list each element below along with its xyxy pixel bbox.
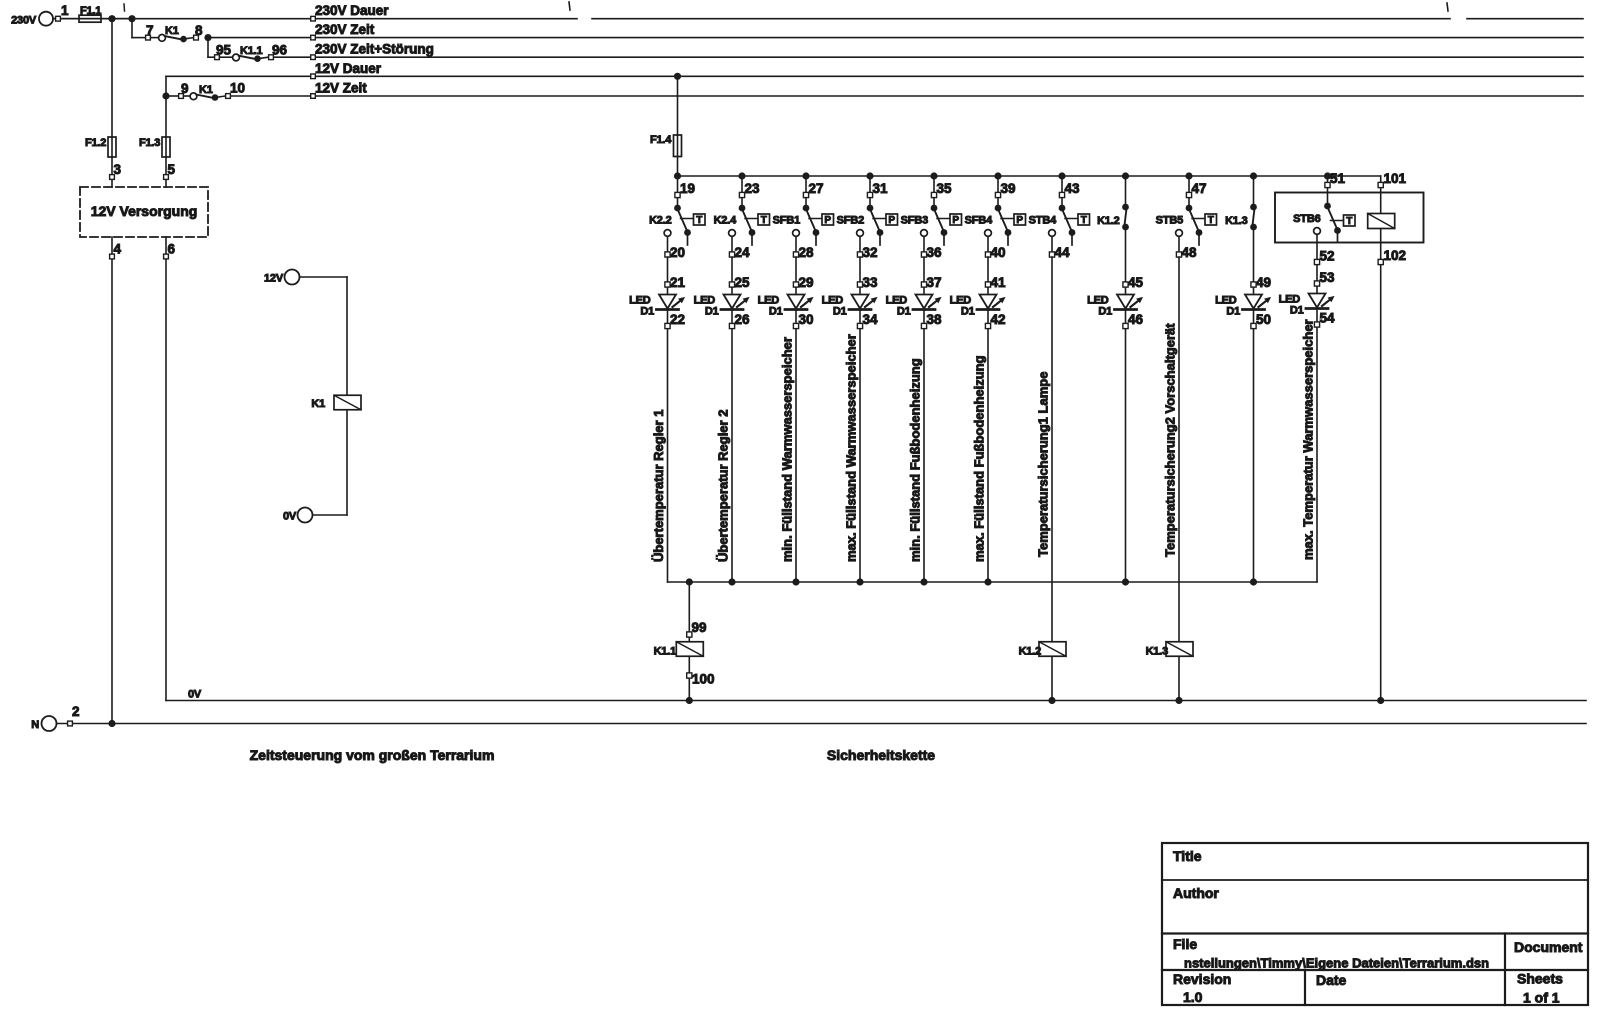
svg-text:Temperatursicherung1 Lampe: Temperatursicherung1 Lampe [1036,372,1051,557]
wire STB4 column to K1.2 coil [1051,257,1053,641]
svg-text:K2.2: K2.2 [649,215,672,227]
node junction bottom bus SFB1 [792,578,799,585]
svg-text:54: 54 [1320,311,1336,326]
svg-text:230V Dauer: 230V Dauer [315,3,389,18]
node 99 [687,620,707,637]
wire branch SFB3 column [923,257,925,582]
wire 12V to K1 coil [300,276,348,278]
relay contact K1.3 branch [1225,172,1257,230]
svg-text:T: T [1081,215,1087,226]
wire STB6 column [1316,234,1318,582]
svg-text:36: 36 [927,245,943,260]
terminal N [31,716,56,731]
fuse F1.2 [85,137,116,157]
svg-text:5: 5 [168,162,176,177]
svg-text:41: 41 [991,275,1007,290]
title block [1162,843,1588,1006]
wire N bus [57,723,1587,725]
svg-text:50: 50 [1256,312,1271,327]
svg-text:20: 20 [670,245,685,260]
svg-text:T: T [1208,215,1214,226]
svg-text:max. Temperatur Warmwasserspei: max. Temperatur Warmwasserspeicher [1301,319,1316,560]
switch K2.4 nodes 23-24 [714,172,770,260]
node junction zeit feed [128,15,135,22]
svg-text:nstellungen\Timmy\Eigene Datei: nstellungen\Timmy\Eigene Dateien\Terrari… [1184,956,1489,971]
rail terminal on 230V Zeit [311,35,316,40]
svg-text:230V: 230V [11,15,37,27]
wire 12V dauer corner [165,76,167,96]
svg-text:22: 22 [670,312,685,327]
svg-text:42: 42 [991,312,1006,327]
node junction supply on N bus [108,720,115,727]
svg-text:46: 46 [1128,312,1144,327]
wire STB5 column to K1.3 coil [1178,257,1180,641]
node junction stoerung feed [204,34,211,41]
svg-text:K1: K1 [199,84,213,96]
svg-text:SFB3: SFB3 [901,215,928,227]
svg-text:43: 43 [1065,181,1081,196]
svg-text:Date: Date [1316,972,1347,988]
wire K1.1 coil to 0V bus [688,656,690,700]
LED D1 nodes 29-30 of SFB1 [758,275,814,329]
wire K1.2 branch column [1125,227,1127,582]
svg-text:min. Füllstand Fußbodenheizung: min. Füllstand Fußbodenheizung [908,358,923,562]
LED D1 nodes 25-26 of K2.4 [694,275,750,329]
relay coil K1 [311,395,361,410]
wire branch K2.2 column [667,257,669,582]
svg-text:95: 95 [216,43,232,58]
node junction bottom bus SFB4 [984,578,991,585]
svg-text:K1.1: K1.1 [654,646,677,658]
relay contact K1.2 branch [1097,172,1129,230]
terminal 0V [283,508,313,523]
svg-text:39: 39 [1001,181,1016,196]
wire K1.1 column [688,582,690,642]
svg-text:4: 4 [114,242,122,257]
svg-text:K1.2: K1.2 [1019,646,1042,658]
relay coil K1.1 [654,642,704,658]
node junction bottom bus K1.2 branch [1122,578,1129,585]
svg-text:Sheets: Sheets [1517,971,1563,987]
switch STB6 node 51 [1293,171,1355,241]
svg-text:0V: 0V [283,511,297,523]
svg-text:230V Zeit+Störung: 230V Zeit+Störung [315,42,434,57]
svg-text:Sicherheitskette: Sicherheitskette [827,747,935,763]
svg-text:34: 34 [863,312,879,327]
wire node 4 down to N bus [111,237,113,724]
relay coil output [1368,214,1395,229]
wire K1.3 branch column [1253,227,1255,582]
svg-text:P: P [1016,215,1023,226]
svg-text:Zeitsteuerung vom großen Terra: Zeitsteuerung vom großen Terrarium [250,747,495,763]
node 101 [1378,171,1406,188]
rail terminal on 12V Zeit [311,94,316,99]
node junction K1.2 on 0V bus [1048,697,1055,704]
svg-text:12V Zeit: 12V Zeit [315,80,367,95]
svg-text:1 of 1: 1 of 1 [1523,990,1560,1006]
svg-text:27: 27 [809,181,824,196]
svg-text:35: 35 [937,181,953,196]
wire 230V Dauer rail [53,18,1583,20]
node 53 [1314,270,1335,286]
svg-text:K1: K1 [311,398,325,410]
relay coil K1.3 [1146,642,1193,658]
LED D1 nodes 45-46 of K1.2 branch [1087,275,1143,329]
svg-text:44: 44 [1055,245,1071,260]
switch SFB4 nodes 39-40 [965,172,1026,260]
LED D1 nodes 21-22 of K2.2 [629,275,685,329]
svg-text:T: T [1346,216,1352,227]
svg-text:12V Dauer: 12V Dauer [315,61,382,76]
wire K1.2 coil to 0V bus [1051,656,1053,700]
svg-text:99: 99 [692,620,707,635]
svg-text:F1.3: F1.3 [139,137,160,149]
LED D1 nodes 37-38 of SFB3 [886,275,942,329]
switch SFB3 nodes 35-36 [901,172,962,260]
svg-text:230V Zeit: 230V Zeit [315,22,375,37]
svg-text:D1: D1 [961,306,975,318]
svg-text:100: 100 [692,672,715,687]
svg-text:SFB2: SFB2 [837,215,864,227]
svg-text:21: 21 [670,275,686,290]
node 102 [1378,248,1406,265]
svg-text:101: 101 [1384,171,1407,186]
node junction K1.1 on 0V bus [686,697,693,704]
svg-text:26: 26 [735,312,751,327]
svg-text:102: 102 [1384,248,1407,263]
svg-text:48: 48 [1182,245,1198,260]
svg-text:STB4: STB4 [1029,215,1057,227]
svg-text:D1: D1 [1098,306,1112,318]
fuse F1.3 [139,137,170,157]
svg-text:30: 30 [799,312,814,327]
node junction 12V zeit feed [162,92,169,99]
svg-text:25: 25 [735,275,751,290]
svg-text:53: 53 [1320,270,1336,285]
svg-text:40: 40 [991,245,1006,260]
svg-text:max. Füllstand Fußbodenheizung: max. Füllstand Fußbodenheizung [972,355,987,562]
wire zeit feed down [131,19,133,38]
svg-text:8: 8 [195,23,203,38]
svg-text:31: 31 [873,181,889,196]
rail terminal on 12V Dauer [311,74,316,79]
LED D1 nodes 41-42 of SFB4 [950,275,1006,329]
svg-text:Document: Document [1514,939,1583,955]
wire F1.4 to branch bus [677,157,679,177]
svg-text:K1.3: K1.3 [1225,215,1248,227]
scan tick mark left [569,2,570,10]
svg-text:7: 7 [146,23,154,38]
node junction bottom bus K2.4 [728,578,735,585]
wire 230V Zeit+Stoerung rail [271,56,1583,58]
svg-text:24: 24 [735,245,751,260]
svg-text:0V: 0V [188,689,202,701]
svg-text:28: 28 [799,245,815,260]
terminal 230V [11,12,53,27]
svg-text:47: 47 [1192,181,1207,196]
rail terminal on 230V Dauer [311,16,316,21]
LED D1 node 54 of STB6 branch [1279,294,1335,328]
wire 0V bus [166,700,1586,702]
svg-text:1.0: 1.0 [1183,989,1203,1005]
wire 230V Zeit rail [208,37,1583,39]
svg-text:Übertemperatur Regler 1: Übertemperatur Regler 1 [651,410,666,562]
svg-text:K2.4: K2.4 [714,215,738,227]
svg-text:37: 37 [927,275,942,290]
wire 12V Dauer rail [166,75,1583,77]
rail terminal on 230V Zeit+Stoerung [311,55,316,60]
wire 12V zeit to fuse F1.3 [165,96,167,137]
svg-text:K1.2: K1.2 [1097,215,1120,227]
svg-text:23: 23 [745,181,761,196]
switch SFB1 nodes 27-28 [773,172,834,260]
svg-text:D1: D1 [1226,306,1240,318]
node junction bottom bus SFB2 [856,578,863,585]
svg-text:33: 33 [863,275,879,290]
node 1 [53,3,79,21]
node 5 [164,162,176,179]
svg-text:min. Füllstand Warmwasserspeic: min. Füllstand Warmwasserspeicher [780,337,795,562]
node junction bottom bus K1.3 branch [1250,578,1257,585]
LED D1 nodes 33-34 of SFB2 [822,275,878,329]
svg-text:32: 32 [863,245,878,260]
svg-text:P: P [952,215,959,226]
node junction K1.3 on 0V bus [1175,697,1182,704]
wire branch SFB2 column [859,257,861,582]
wire 101 feed corner [1380,176,1382,214]
svg-text:STB5: STB5 [1156,215,1183,227]
wire branch SFB4 column [987,257,989,582]
svg-text:Title: Title [1173,848,1202,864]
node junction F1.4 on 12V Dauer [674,73,681,80]
switch STB5 nodes 47-48 [1156,172,1217,260]
wire fuse to node 3 [111,157,113,187]
svg-text:Revision: Revision [1173,971,1231,987]
node 2 [68,704,80,726]
svg-text:2: 2 [72,704,80,719]
wire fuse to node 5 [165,157,167,187]
svg-text:51: 51 [1330,171,1346,186]
svg-text:P: P [888,215,895,226]
wire main column down [111,19,113,137]
wire branch K2.4 column [731,257,733,582]
svg-text:K1.1: K1.1 [240,45,263,57]
node junction output relay on 0V bus [1377,697,1384,704]
node junction main [108,15,115,22]
svg-text:SFB1: SFB1 [773,215,800,227]
block STB6 outline [1275,193,1424,243]
wire bottom LED bus [668,581,1318,583]
svg-text:D1: D1 [897,306,911,318]
fuse F1.4 [650,134,682,157]
svg-text:D1: D1 [769,306,783,318]
node 4 [110,242,122,259]
svg-text:10: 10 [230,81,245,96]
svg-text:T: T [761,215,767,226]
svg-text:max. Füllstand Warmwasserspeic: max. Füllstand Warmwasserspeicher [844,334,859,562]
svg-text:6: 6 [168,242,176,257]
svg-text:D1: D1 [1290,305,1304,317]
svg-text:K1.3: K1.3 [1146,646,1169,658]
svg-text:SFB4: SFB4 [965,215,993,227]
svg-text:52: 52 [1320,249,1335,264]
svg-text:N: N [31,719,39,731]
wire to zeit branch [112,18,132,20]
switch K2.2 nodes 19-20 [649,172,705,260]
svg-text:96: 96 [272,43,288,58]
svg-text:STB6: STB6 [1293,213,1320,225]
scan tick mark near fuse [123,4,126,11]
svg-text:Author: Author [1173,885,1219,901]
switch SFB2 nodes 31-32 [837,172,898,260]
switch K1 contact 7-8 [146,23,203,42]
svg-text:29: 29 [799,275,814,290]
fuse F1.1 [79,5,112,22]
svg-text:49: 49 [1256,275,1271,290]
svg-text:1: 1 [61,3,69,18]
switch K1.1 contact 95-96 [215,43,288,63]
wire branch SFB1 column [795,257,797,582]
node 100 [687,672,715,687]
wire node 6 down to 0V bus [165,237,167,701]
relay coil K1.2 [1019,642,1066,658]
switch K1 contact 9-10 [166,81,245,101]
wire K1.3 coil to 0V bus [1178,656,1180,700]
svg-text:Temperatursicherung2 Vorschalt: Temperatursicherung2 Vorschaltgerät [1163,323,1178,557]
node 3 [110,162,122,179]
svg-text:T: T [696,215,702,226]
svg-text:D1: D1 [833,306,847,318]
svg-text:19: 19 [680,181,695,196]
svg-text:F1.2: F1.2 [85,137,106,149]
LED D1 nodes 49-50 of K1.3 branch [1215,275,1271,329]
wire 12V Zeit rail [231,95,1584,97]
svg-text:3: 3 [114,162,122,177]
svg-text:F1.4: F1.4 [650,134,672,146]
svg-text:D1: D1 [705,306,719,318]
wire top branch bus [678,175,1381,177]
svg-text:Übertemperatur Regler 2: Übertemperatur Regler 2 [716,410,731,562]
wire stoerung feed down [207,38,209,58]
wire K1 coil to 0V terminal [346,410,348,515]
svg-text:D1: D1 [640,306,654,318]
node 6 [164,242,176,259]
node 52 [1314,249,1334,265]
svg-text:F1.1: F1.1 [80,5,101,17]
svg-text:12V Versorgung: 12V Versorgung [91,203,198,219]
svg-text:38: 38 [927,312,943,327]
terminal 12V [264,270,299,285]
svg-text:12V: 12V [264,273,284,285]
wire F1.4 column [677,76,679,135]
block 12V Versorgung [80,187,208,237]
svg-text:P: P [824,215,831,226]
switch STB4 nodes 43-44 [1029,172,1090,260]
svg-text:File: File [1173,936,1197,952]
svg-text:K1: K1 [165,25,179,37]
scan tick mark right [1447,3,1448,11]
svg-text:9: 9 [181,81,189,96]
svg-text:45: 45 [1128,275,1144,290]
node junction bottom bus SFB3 [920,578,927,585]
node junction K1.1 on bottom bus [686,578,693,585]
wire relay to 0V bus [1380,229,1382,701]
